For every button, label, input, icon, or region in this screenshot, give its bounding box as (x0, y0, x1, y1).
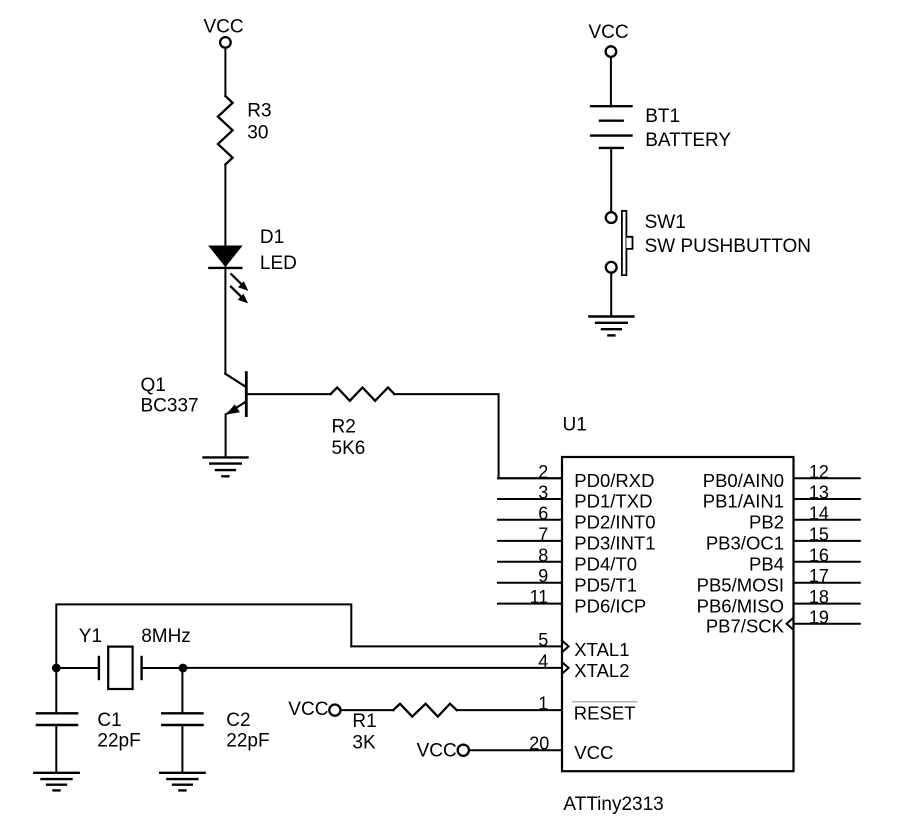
power flag VCC (at R1) (288, 699, 340, 720)
pin 9 stub (498, 582, 562, 584)
wire junction to C2 (181, 668, 183, 713)
pin 19 input chevron (787, 618, 794, 630)
svg-text:ATTiny2313: ATTiny2313 (563, 794, 663, 815)
wire Q1 emitter to ground (225, 414, 227, 457)
RESET overline (573, 701, 637, 703)
svg-text:12: 12 (809, 462, 829, 482)
switch SW1 (606, 211, 633, 275)
wire junction to crystal left plate (56, 667, 99, 669)
svg-text:2: 2 (538, 462, 548, 482)
svg-text:19: 19 (809, 607, 829, 627)
svg-text:18: 18 (809, 587, 829, 607)
pin 5 input chevron (562, 641, 569, 653)
ground (under C1) (34, 773, 78, 791)
svg-text:SW PUSHBUTTON: SW PUSHBUTTON (645, 236, 811, 257)
resistor R3 (218, 96, 233, 165)
svg-text:PB6/MISO: PB6/MISO (697, 595, 784, 616)
svg-text:VCC: VCC (288, 699, 328, 720)
svg-text:VCC: VCC (417, 741, 457, 762)
pin 4 stub XTAL2 (183, 667, 562, 669)
svg-text:RESET: RESET (574, 702, 636, 723)
wire XTAL1 net (up and across to crystal left) (56, 604, 351, 668)
svg-text:XTAL1: XTAL1 (574, 639, 629, 660)
pin 14 stub (794, 519, 860, 521)
ground (under Q1) (204, 457, 248, 476)
pin 4 input chevron (562, 662, 569, 674)
wire SW1 to ground (610, 273, 612, 317)
pin 18 stub (794, 603, 860, 605)
wire VCC to BT1 (610, 57, 612, 106)
svg-text:R2: R2 (332, 417, 356, 438)
pin 11 stub (498, 603, 562, 605)
svg-text:VCC: VCC (203, 17, 243, 38)
ground (under C2) (160, 773, 204, 791)
pin 3 stub (498, 498, 562, 500)
pin 5 stub XTAL1 (351, 645, 562, 647)
wire C1 to ground (55, 725, 57, 773)
transistor Q1 (225, 373, 246, 416)
svg-text:8: 8 (538, 545, 548, 565)
svg-text:PB7/SCK: PB7/SCK (706, 616, 785, 637)
wire Q1 base to R2 (246, 393, 330, 395)
svg-text:PD2/INT0: PD2/INT0 (574, 512, 655, 533)
svg-text:7: 7 (538, 524, 548, 544)
svg-text:R3: R3 (247, 101, 271, 122)
capacitor C1 (37, 713, 77, 725)
svg-text:PD0/RXD: PD0/RXD (574, 470, 654, 491)
svg-text:3: 3 (538, 483, 548, 503)
pin 2 stub (498, 477, 562, 479)
resistor R1 (393, 704, 456, 717)
svg-text:6: 6 (538, 503, 548, 523)
pin 19 stub (794, 623, 860, 625)
op-amp U1 box (ATTiny2313) (562, 457, 794, 771)
wire BT1 to SW1 (610, 148, 612, 212)
svg-text:4: 4 (538, 651, 548, 671)
node B junction dot (crystal right) (179, 664, 188, 673)
wire VCC to R1 (341, 709, 394, 711)
svg-text:BC337: BC337 (141, 396, 199, 417)
svg-text:PD4/T0: PD4/T0 (574, 554, 637, 575)
svg-text:PB4: PB4 (749, 554, 784, 575)
pin 13 stub (794, 498, 860, 500)
wire junction to C1 (55, 668, 57, 713)
pin 8 stub (498, 561, 562, 563)
pin 6 stub (498, 519, 562, 521)
svg-text:VCC: VCC (588, 22, 628, 43)
power flag VCC (at pin 20) (417, 741, 469, 762)
resistor R2 (331, 388, 395, 401)
svg-text:Q1: Q1 (141, 375, 166, 396)
wire R1 to U1 pin 1 (457, 709, 562, 711)
svg-text:PD3/INT1: PD3/INT1 (574, 533, 655, 554)
svg-text:U1: U1 (563, 414, 587, 435)
wire crystal right plate to junction (142, 667, 183, 669)
power flag VCC (top right) (588, 22, 628, 57)
node A junction dot (crystal left) (52, 664, 61, 673)
svg-text:22pF: 22pF (226, 730, 269, 751)
svg-text:3K: 3K (352, 733, 376, 754)
ground (under SW1) (589, 317, 633, 336)
svg-text:D1: D1 (260, 227, 284, 248)
battery BT1 (591, 106, 631, 148)
svg-text:13: 13 (809, 483, 829, 503)
svg-text:C1: C1 (97, 710, 121, 731)
LED D1 (209, 246, 248, 303)
power flag VCC (top left) (203, 17, 243, 48)
svg-text:22pF: 22pF (97, 730, 140, 751)
pin 17 stub (794, 582, 860, 584)
svg-text:8MHz: 8MHz (141, 626, 191, 647)
svg-text:LED: LED (260, 253, 297, 274)
svg-text:Y1: Y1 (79, 626, 102, 647)
svg-text:9: 9 (538, 566, 548, 586)
svg-text:PB3/OC1: PB3/OC1 (706, 533, 784, 554)
svg-text:14: 14 (809, 503, 829, 523)
svg-text:SW1: SW1 (645, 212, 686, 233)
svg-text:PD1/TXD: PD1/TXD (574, 491, 652, 512)
wire R3 to D1 (224, 165, 226, 247)
svg-text:17: 17 (809, 566, 829, 586)
pin 15 stub (794, 540, 860, 542)
svg-text:PB1/AIN1: PB1/AIN1 (703, 491, 784, 512)
svg-text:15: 15 (809, 524, 829, 544)
svg-text:16: 16 (809, 545, 829, 565)
svg-text:XTAL2: XTAL2 (574, 660, 629, 681)
svg-text:5K6: 5K6 (332, 438, 366, 459)
crystal Y1 (99, 647, 142, 689)
svg-text:R1: R1 (352, 711, 376, 732)
svg-text:BATTERY: BATTERY (645, 130, 731, 151)
svg-text:PB2: PB2 (749, 512, 784, 533)
wire VCC to R3 (224, 48, 226, 96)
svg-text:C2: C2 (226, 710, 250, 731)
svg-text:BT1: BT1 (645, 106, 680, 127)
capacitor C2 (162, 713, 202, 725)
svg-text:PB5/MOSI: PB5/MOSI (697, 574, 784, 595)
wire VCC to U1 pin 20 (469, 749, 562, 751)
svg-text:VCC: VCC (574, 742, 613, 763)
svg-text:PB0/AIN0: PB0/AIN0 (703, 470, 784, 491)
wire D1 to Q1 collector (224, 268, 226, 374)
svg-text:PD5/T1: PD5/T1 (574, 574, 637, 595)
svg-text:PD6/ICP: PD6/ICP (574, 595, 646, 616)
pin 7 stub (498, 540, 562, 542)
svg-text:5: 5 (538, 630, 548, 650)
pin 12 stub (794, 477, 860, 479)
svg-text:30: 30 (247, 122, 268, 143)
svg-text:11: 11 (530, 587, 549, 607)
wire C2 to ground (181, 725, 183, 773)
wire R2 to U1 pin 2 (394, 394, 562, 478)
pin 16 stub (794, 561, 860, 563)
